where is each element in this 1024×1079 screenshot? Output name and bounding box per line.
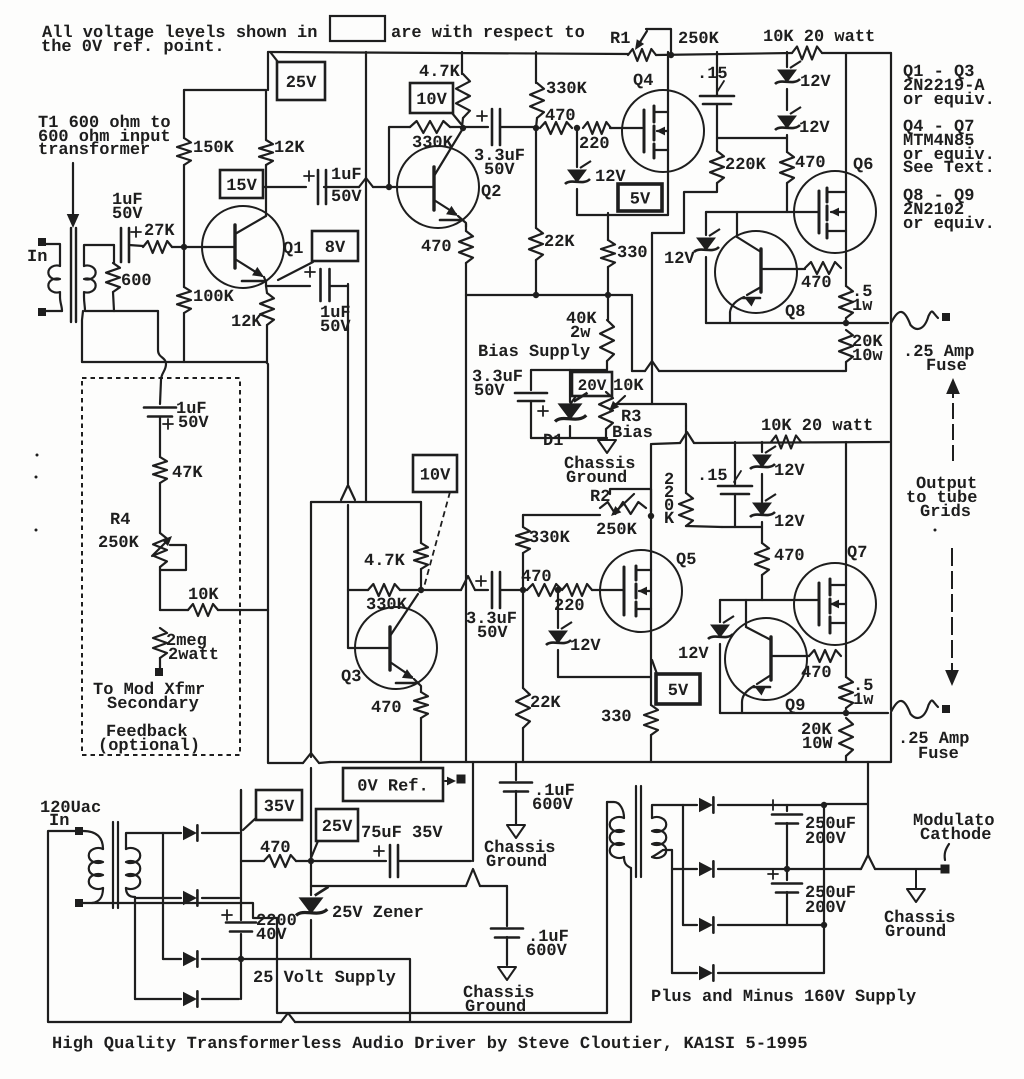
resistor 470 series upper xyxy=(540,122,572,134)
transformer HV secondary winding xyxy=(652,817,666,858)
svg-text:25 Volt Supply: 25 Volt Supply xyxy=(253,969,396,988)
pointer 35V box xyxy=(243,818,256,830)
wire lower rail y442 xyxy=(652,443,680,444)
capacitor 3.3uF 50V lower xyxy=(491,572,494,608)
resistor 330K bias upper xyxy=(535,52,537,83)
wire R3 wiper to lower rail xyxy=(616,404,686,426)
wire bridge left bus x163 xyxy=(162,833,164,959)
svg-text:50V: 50V xyxy=(178,414,209,433)
wire HV secondary bottom xyxy=(652,850,663,857)
mosfet Q6 xyxy=(794,171,876,253)
resistor 20K 10w upper xyxy=(839,330,853,362)
svg-text:R1: R1 xyxy=(610,30,630,49)
wire bias box top y370 xyxy=(531,369,607,371)
wire 470 row y861 xyxy=(241,860,264,862)
wire 25V tap below rail xyxy=(472,762,474,861)
svg-text:8V: 8V xyxy=(325,239,346,258)
wire 25V feed x311 xyxy=(310,502,312,757)
resistor 470 chain lower xyxy=(755,543,769,575)
svg-text:See Text.: See Text. xyxy=(903,159,995,178)
node A lower xyxy=(520,587,526,593)
svg-text:50V: 50V xyxy=(320,318,351,337)
svg-text:12V: 12V xyxy=(664,250,695,269)
svg-text:27K: 27K xyxy=(144,222,175,241)
wire Q9 cell left x720 xyxy=(719,600,721,622)
voltage box 20V xyxy=(572,372,612,396)
wire y515 row xyxy=(523,514,600,516)
transformer power primary lead xyxy=(83,831,103,849)
svg-text:10K 20 watt: 10K 20 watt xyxy=(761,417,873,436)
svg-text:75uF 35V: 75uF 35V xyxy=(361,824,443,843)
svg-text:200V: 200V xyxy=(805,830,847,849)
svg-text:(optional): (optional) xyxy=(98,737,200,756)
mosfet Q7 xyxy=(794,563,876,645)
wire right rail x891 xyxy=(890,53,892,710)
wire cap to Q2 base with hop xyxy=(324,186,359,188)
svg-text:1w: 1w xyxy=(853,691,874,710)
wire 15V box to collector node xyxy=(263,186,306,188)
node R2 junction xyxy=(648,513,654,519)
wire 0V return y362 xyxy=(82,362,268,610)
svg-text:40V: 40V xyxy=(256,926,287,945)
output arrow up xyxy=(946,378,960,394)
input terminal bottom xyxy=(38,308,46,316)
transistor Q9 xyxy=(725,618,807,700)
chassis ground bias xyxy=(598,440,616,453)
wire cap/zener connector y138 xyxy=(717,137,787,139)
resistor 470 series lower xyxy=(527,584,562,596)
zener 12V at Q5 gate xyxy=(557,590,559,628)
wire HV output bus x824 xyxy=(823,805,825,973)
wire 470 to node xyxy=(296,860,386,862)
svg-text:470: 470 xyxy=(801,664,832,683)
svg-text:the 0V ref. point.: the 0V ref. point. xyxy=(41,38,225,57)
svg-text:470: 470 xyxy=(801,274,832,293)
zener 12V chain 1 lower xyxy=(761,442,763,452)
terminal to mod xfmr xyxy=(155,668,163,676)
resistor 150K xyxy=(183,90,185,138)
svg-text:.15: .15 xyxy=(697,467,728,486)
svg-text:Fuse: Fuse xyxy=(918,745,959,764)
wire feedback tap from input return xyxy=(114,310,158,312)
svg-text:470: 470 xyxy=(795,154,826,173)
svg-text:Q4: Q4 xyxy=(633,72,653,91)
pointer 25V box xyxy=(311,841,318,858)
svg-text:Cathode: Cathode xyxy=(920,826,991,845)
transformer HV primary winding xyxy=(610,817,624,858)
svg-text:4.7K: 4.7K xyxy=(419,63,461,82)
pointer 8V box to emitter xyxy=(278,262,313,280)
svg-text:Fuse: Fuse xyxy=(926,357,967,376)
svg-text:20V: 20V xyxy=(578,377,607,395)
wire 0V corner to cathode xyxy=(867,762,869,855)
zener 25V xyxy=(310,861,312,895)
zener 12V chain 2 lower xyxy=(750,494,776,517)
wire 25V rail x366 xyxy=(365,52,367,502)
wire 0V rail y762 xyxy=(330,761,868,763)
wire Q8 cell bottom y323 xyxy=(706,322,888,324)
svg-text:470: 470 xyxy=(371,699,402,718)
fuse .25A upper xyxy=(891,312,938,329)
wire fuse node to 0V rail xyxy=(868,713,891,762)
svg-text:330K: 330K xyxy=(366,596,408,615)
diode D row3 25V xyxy=(163,958,181,960)
voltage box 35V xyxy=(256,790,302,820)
svg-text:10w: 10w xyxy=(852,347,883,366)
capacitor .15 lower xyxy=(734,442,736,484)
output arrow down xyxy=(951,548,953,670)
wire 0V signal rail x466 xyxy=(465,295,467,571)
wire emitter node xyxy=(266,285,310,287)
resistor 220K upper xyxy=(710,151,724,183)
wire bias drop x652 xyxy=(651,233,653,404)
terminal 120Vac top xyxy=(75,827,83,835)
svg-text:47K: 47K xyxy=(172,464,203,483)
resistor 330K Q3 feedback xyxy=(348,589,368,591)
wire HV secondary top xyxy=(652,805,683,818)
transformer T1 core xyxy=(70,228,72,322)
resistor 470 25V supply xyxy=(264,855,296,867)
wire HV primary bottom xyxy=(624,857,631,868)
resistor 470 Q9 base xyxy=(809,650,841,662)
resistor 4.7K Q3 load xyxy=(420,502,422,543)
svg-text:or equiv.: or equiv. xyxy=(903,215,995,234)
svg-text:Grids: Grids xyxy=(920,503,971,522)
resistor 100K xyxy=(183,247,185,287)
svg-text:Q2: Q2 xyxy=(481,183,501,202)
resistor 27K xyxy=(143,241,172,253)
wire HV bus to 0V corner xyxy=(824,803,868,805)
wire cap to signal drop x348 xyxy=(330,284,348,286)
wire 75uF to tap xyxy=(398,860,471,862)
svg-text:250K: 250K xyxy=(596,521,638,540)
wire y502 supply row xyxy=(311,501,421,503)
chassis ground cathode xyxy=(915,869,917,888)
svg-text:12V: 12V xyxy=(799,119,830,138)
wire feedback return to 0V rail xyxy=(268,610,303,763)
svg-text:Ground: Ground xyxy=(465,998,526,1017)
svg-text:In: In xyxy=(27,248,47,267)
diode D row4 160V xyxy=(672,972,697,974)
resistor .5 1w upper xyxy=(845,268,847,286)
svg-text:High Quality Transformerless A: High Quality Transformerless Audio Drive… xyxy=(52,1035,808,1054)
zener 12V chain 1 upper xyxy=(786,52,788,67)
resistor 220 lower xyxy=(562,584,592,596)
wire cap to 27K xyxy=(129,245,143,246)
svg-text:50V: 50V xyxy=(112,205,143,224)
transformer power core xyxy=(112,822,114,908)
wire Q6 gate row y212 xyxy=(706,211,818,213)
svg-text:600: 600 xyxy=(121,272,152,291)
wire zener top row y886 xyxy=(311,885,466,887)
scan specks xyxy=(36,454,39,457)
rheostat R3 10K bias xyxy=(599,392,613,429)
capacitor .1uF 600V upper chassis xyxy=(515,762,517,780)
wire top rail y52 xyxy=(268,52,628,54)
svg-text:25V: 25V xyxy=(286,74,317,93)
svg-text:10V: 10V xyxy=(420,467,451,486)
svg-text:Q3: Q3 xyxy=(341,668,361,687)
svg-text:150K: 150K xyxy=(193,139,235,158)
resistor 10K feedback xyxy=(160,609,188,611)
diode D row1 160V xyxy=(683,804,697,806)
svg-text:470: 470 xyxy=(774,547,805,566)
resistor 47K xyxy=(153,457,167,483)
wire secondary top to node xyxy=(84,245,114,266)
zener 12V at Q4 gate xyxy=(576,128,578,167)
svg-text:25V Zener: 25V Zener xyxy=(332,904,424,923)
svg-text:are with respect to: are with respect to xyxy=(391,24,585,43)
wire bridge left bus x135 xyxy=(134,897,136,999)
svg-text:0V Ref.: 0V Ref. xyxy=(357,778,428,797)
svg-text:5V: 5V xyxy=(668,682,689,701)
capacitor .1uF 600V lower chassis xyxy=(506,886,508,926)
chassis ground lower cap xyxy=(498,967,516,980)
note empty box xyxy=(330,16,385,41)
svg-text:R4: R4 xyxy=(110,511,130,530)
svg-text:10V: 10V xyxy=(416,91,447,110)
resistor 20K 10w lower xyxy=(839,718,853,756)
input terminal top xyxy=(38,238,46,246)
voltage box 10V upper xyxy=(410,83,453,113)
pointer 10V box to node (dashed) xyxy=(424,492,450,587)
pointer cathode label xyxy=(945,844,949,860)
svg-text:1uF: 1uF xyxy=(331,166,362,185)
resistor 470 Q2 emitter xyxy=(465,224,467,231)
voltage box 15V xyxy=(220,170,263,198)
pointer 5V lower xyxy=(652,660,657,674)
capacitor 3.3uF 50V upper xyxy=(462,126,488,128)
transistor Q8 xyxy=(715,231,797,313)
svg-text:4.7K: 4.7K xyxy=(364,552,406,571)
svg-text:Q7: Q7 xyxy=(847,544,867,563)
diode D row4 25V xyxy=(135,998,181,1000)
node rectifier out xyxy=(238,956,244,962)
resistor 12K collector xyxy=(265,90,267,140)
svg-text:10W: 10W xyxy=(802,735,833,754)
svg-text:12V: 12V xyxy=(774,462,805,481)
mosfet Q4 xyxy=(622,90,704,172)
diode D row2 160V xyxy=(672,868,697,870)
svg-text:22K: 22K xyxy=(530,694,561,713)
resistor 330K bias lower xyxy=(522,515,524,527)
terminal 120Vac bottom xyxy=(75,899,83,907)
box 0V Ref xyxy=(343,768,443,801)
svg-text:200V: 200V xyxy=(805,899,847,918)
transformer T1 primary winding xyxy=(48,266,62,312)
wire y90 rail xyxy=(184,89,266,91)
capacitor 250uF 200V upper xyxy=(786,805,788,811)
capacitor 1uF 50V interstage xyxy=(317,170,320,204)
resistor 22K upper xyxy=(535,128,537,228)
wire y295 row xyxy=(466,294,632,296)
node 25V xyxy=(308,858,314,864)
wire Q8 cell left x706 xyxy=(705,212,707,235)
svg-text:330: 330 xyxy=(617,244,648,263)
fuse .25A lower xyxy=(891,701,938,718)
arrow from T1 label xyxy=(72,163,74,215)
svg-text:Q5: Q5 xyxy=(676,551,696,570)
svg-text:470: 470 xyxy=(521,568,552,587)
svg-text:470: 470 xyxy=(421,238,452,257)
capacitor 75uF 35V xyxy=(389,845,392,877)
svg-text:600V: 600V xyxy=(532,796,574,815)
voltage box 8V xyxy=(312,231,358,261)
wire R4 to 10K junction xyxy=(159,567,161,610)
svg-text:50V: 50V xyxy=(484,161,515,180)
wire 20K return y371 xyxy=(659,370,843,372)
wire Q4 source row y215 xyxy=(577,214,668,216)
resistor 470 chain upper xyxy=(780,152,794,183)
wire signal drop to Q3 base (x=348) xyxy=(347,286,349,484)
resistor 470 Q8 base xyxy=(805,262,841,274)
svg-text:Bias: Bias xyxy=(612,424,653,443)
capacitor 1uF 50V feedback xyxy=(144,406,176,409)
resistor 10K 20 watt upper xyxy=(792,47,822,60)
svg-text:12V: 12V xyxy=(678,645,709,664)
svg-text:35V: 35V xyxy=(264,798,295,817)
wire input bottom xyxy=(46,310,62,312)
chassis ground upper cap xyxy=(507,825,525,838)
svg-text:Q6: Q6 xyxy=(853,156,873,175)
resistor 330 upper xyxy=(607,213,609,240)
wire secondary top to bridge xyxy=(126,833,163,849)
resistor 22K lower xyxy=(522,590,524,688)
transformer HV primary lead top xyxy=(607,802,624,818)
svg-text:12V: 12V xyxy=(774,513,805,532)
wire 120vac left loop xyxy=(48,831,281,1022)
svg-text:or equiv.: or equiv. xyxy=(903,91,995,110)
node Q3 collector xyxy=(418,587,424,593)
transistor Q1 xyxy=(202,206,284,288)
svg-text:50V: 50V xyxy=(477,624,508,643)
capacitor .15 upper xyxy=(716,52,718,96)
svg-text:330: 330 xyxy=(601,708,632,727)
wire Q7 gate row y600 xyxy=(720,599,818,601)
node B upper xyxy=(574,125,580,131)
resistor 10K 20 watt lower xyxy=(771,436,801,449)
svg-text:1w: 1w xyxy=(852,297,873,316)
wire rail R1 to 10K xyxy=(656,53,792,55)
wire primary bottom xyxy=(92,888,103,903)
svg-text:5V: 5V xyxy=(630,191,651,210)
node at 150K/100K/base xyxy=(181,244,187,250)
resistor 2meg 2watt xyxy=(153,628,167,658)
svg-text:Q1: Q1 xyxy=(283,240,303,259)
wire input top xyxy=(46,244,60,266)
resistor 600 xyxy=(113,245,115,263)
wire HV input bus x683 xyxy=(682,805,684,925)
svg-text:12K: 12K xyxy=(231,313,262,332)
voltage box 25V supply xyxy=(316,809,358,841)
diode D row3 160V xyxy=(683,924,697,926)
svg-text:Ground: Ground xyxy=(486,853,547,872)
rheostat R2 250K xyxy=(600,502,646,514)
wire bias box bottom y438 xyxy=(531,437,607,439)
svg-text:2watt: 2watt xyxy=(168,646,219,665)
pointer 25V box xyxy=(271,53,278,62)
node Q2 collector xyxy=(460,125,466,131)
resistor .5 1w lower xyxy=(845,656,847,677)
svg-text:10K: 10K xyxy=(188,586,219,605)
svg-text:Ground: Ground xyxy=(566,469,627,488)
rheostat R4 250K xyxy=(153,533,167,567)
wire collector to cap with hop at x468 xyxy=(421,589,461,591)
capacitor 1uF 50V emitter xyxy=(319,269,322,301)
zener 12V chain 2 upper xyxy=(775,107,801,130)
svg-text:50V: 50V xyxy=(474,382,505,401)
svg-text:220K: 220K xyxy=(725,156,767,175)
svg-text:2w: 2w xyxy=(570,324,591,343)
svg-text:330K: 330K xyxy=(529,529,571,548)
voltage box 25V xyxy=(277,62,325,100)
svg-text:Ground: Ground xyxy=(885,923,946,942)
node A upper xyxy=(533,125,539,131)
wire top rail 25V segment xyxy=(267,52,269,90)
wire 27K to Q1 base xyxy=(172,246,234,248)
transformer power primary winding xyxy=(89,848,103,889)
svg-text:Plus and Minus 160V Supply: Plus and Minus 160V Supply xyxy=(651,988,916,1007)
wire Q9 cell bottom y713 xyxy=(720,712,888,714)
wire Q5 drain to lower rail xyxy=(650,444,652,570)
svg-text:R2: R2 xyxy=(590,488,610,507)
wire secondary bottom xyxy=(85,310,114,312)
svg-text:In: In xyxy=(49,812,69,831)
svg-text:50V: 50V xyxy=(331,188,362,207)
svg-text:25V: 25V xyxy=(322,818,353,837)
wire cathode row y869 xyxy=(860,868,861,870)
svg-text:D1: D1 xyxy=(543,432,563,451)
transformer T1 secondary winding xyxy=(84,266,96,312)
svg-text:250K: 250K xyxy=(678,30,720,49)
svg-text:.15: .15 xyxy=(697,65,728,84)
transistor Q3 xyxy=(355,607,437,689)
resistor 12K emitter xyxy=(266,286,267,293)
svg-text:220: 220 xyxy=(579,135,610,154)
svg-text:12V: 12V xyxy=(800,73,831,92)
feedback dashed box xyxy=(82,378,240,755)
transformer HV left wire xyxy=(606,802,608,1013)
resistor 220K lower (vertical label) xyxy=(685,450,687,493)
mosfet Q5 xyxy=(600,550,682,632)
wire Q5 source row y677 xyxy=(558,676,651,678)
resistor 330 lower xyxy=(650,677,652,705)
svg-text:Bias Supply: Bias Supply xyxy=(478,343,590,362)
wire connector y527 lower xyxy=(722,526,762,528)
transistor Q2 xyxy=(397,146,479,228)
capacitor 2200 40V xyxy=(226,921,256,924)
voltage box 5V lower xyxy=(656,674,700,704)
transformer HV core xyxy=(635,786,637,877)
wire HV input bus x672 xyxy=(671,850,673,973)
wire gate Q5 xyxy=(592,589,624,591)
diode D row1 25V xyxy=(163,832,181,834)
resistor 330K Q2 feedback xyxy=(410,121,450,133)
svg-text:12V: 12V xyxy=(570,637,601,656)
wire 25V return to rail xyxy=(241,959,410,1021)
resistor 220 upper xyxy=(583,122,611,134)
svg-text:K: K xyxy=(664,510,675,529)
voltage box 10V lower xyxy=(413,455,457,492)
capacitor 1uF input coupling xyxy=(120,228,123,262)
zener D1 20V xyxy=(569,370,571,402)
voltage box 5V upper xyxy=(618,184,662,211)
diode D row2 25V xyxy=(135,897,181,899)
capacitor 3.3uF 50V bias xyxy=(530,370,532,390)
svg-text:15V: 15V xyxy=(226,177,257,196)
wire secondary bottom to bridge xyxy=(126,888,135,897)
resistor 470 Q3 emitter xyxy=(414,692,428,718)
